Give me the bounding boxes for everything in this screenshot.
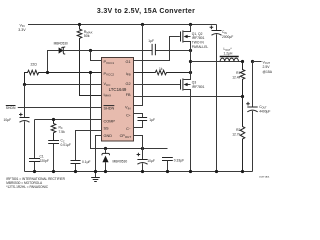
resistor RMAX 50k <box>77 25 101 96</box>
node junction dot VIN-pin drop <box>141 23 144 26</box>
node SHDN input label <box>6 106 102 111</box>
wire FB line <box>134 96 243 98</box>
svg-text:PARALLEL: PARALLEL <box>192 45 209 49</box>
wire SW to VOUT line <box>191 61 243 63</box>
svg-text:1649 TA01: 1649 TA01 <box>259 176 270 179</box>
svg-text:50k: 50k <box>84 34 90 38</box>
svg-text:3.3V to 2.5V, 15A Converter: 3.3V to 2.5V, 15A Converter <box>97 8 195 15</box>
wire COMP line <box>35 119 102 121</box>
node junction dot PVCC2 <box>89 71 92 74</box>
svg-text:1μF: 1μF <box>148 39 154 43</box>
wire VCC line <box>25 84 102 86</box>
svg-text:SS: SS <box>104 127 110 131</box>
node rail dots <box>33 170 244 173</box>
svg-text:0.33μF: 0.33μF <box>174 158 184 162</box>
svg-text:2.5V: 2.5V <box>263 65 271 69</box>
svg-text:12.7k: 12.7k <box>232 133 240 137</box>
svg-text:SHDN: SHDN <box>6 106 16 110</box>
wire IFB line with resistor 1k <box>134 67 193 75</box>
svg-text:GND: GND <box>104 134 113 138</box>
svg-text:COMP: COMP <box>104 120 116 124</box>
node junction dot 22ohm/diode riser <box>46 71 49 74</box>
resistor 22ohm <box>25 63 102 85</box>
capacitor COUT 4400uF polarized <box>246 62 270 172</box>
resistor RC 7.5k <box>51 120 65 141</box>
svg-text:C1: C1 <box>40 154 44 158</box>
svg-text:SHDN: SHDN <box>104 106 115 110</box>
wire SS line <box>76 131 102 161</box>
node junction dot RMAX top <box>78 23 81 26</box>
capacitor 1uF bootstrap <box>148 39 155 55</box>
svg-text:220pF: 220pF <box>40 159 49 163</box>
svg-text:MBR0530: MBR0530 <box>113 159 128 163</box>
svg-text:MBR0530: MBR0530 <box>54 42 68 46</box>
wire PVCC1 stub from boost line <box>91 51 102 61</box>
svg-text:C+: C+ <box>126 113 131 118</box>
svg-text:IFB: IFB <box>126 72 131 77</box>
svg-text:1μF: 1μF <box>149 118 155 122</box>
wire boost line over IC to 1uF <box>91 50 191 52</box>
svg-text:1.2μH: 1.2μH <box>224 51 233 55</box>
transistor Q1 Q2 IRF7801 <box>181 25 209 62</box>
svg-text:LTC1649: LTC1649 <box>109 87 127 92</box>
svg-text:1k: 1k <box>159 67 163 71</box>
svg-text:10μF: 10μF <box>4 118 12 122</box>
ground <box>91 172 100 182</box>
svg-text:7.5k: 7.5k <box>59 130 66 134</box>
svg-text:@15A: @15A <box>263 70 273 74</box>
resistor R2 12.7k <box>232 97 245 172</box>
transistor Q3 IRF7801 <box>181 62 205 172</box>
node junction dot boost to SW <box>189 49 192 52</box>
node junction dot Q1 drain <box>189 23 192 26</box>
capacitor CIN 2000uF polarized <box>210 25 234 172</box>
svg-text:IRF7801: IRF7801 <box>192 85 205 89</box>
svg-text:G1: G1 <box>126 60 131 64</box>
svg-text:*12TS-1R2HL = PANASONIC: *12TS-1R2HL = PANASONIC <box>6 185 49 189</box>
node SW junction dot <box>189 60 192 63</box>
svg-text:FB: FB <box>126 93 131 97</box>
node VOUT label <box>263 60 273 74</box>
svg-text:2000μF: 2000μF <box>222 35 233 39</box>
wire G2 line <box>134 84 181 86</box>
inductor LOUT 1.2uH <box>220 47 239 61</box>
svg-text:3.3V: 3.3V <box>18 28 26 32</box>
capacitor CC 0.01uF <box>48 139 71 172</box>
capacitor 0.33uF <box>162 158 184 172</box>
wire CPOUT vertical from PVCC2 line <box>91 73 168 149</box>
node junction dot boost at x90 <box>89 49 92 52</box>
node VIN label <box>18 23 26 31</box>
diode MBR0530 bottom <box>102 149 127 172</box>
svg-text:IMAX: IMAX <box>104 93 112 98</box>
wire CPOUT line dots <box>104 147 107 150</box>
svg-text:12.4k: 12.4k <box>232 76 240 80</box>
svg-text:10μF: 10μF <box>147 159 155 163</box>
wire VIN rail <box>28 24 217 26</box>
svg-text:0.01μF: 0.01μF <box>61 143 71 147</box>
capacitor 1uF charge pump C+/C- <box>134 114 156 128</box>
diode MBR0530 top <box>48 42 91 73</box>
svg-text:0.1μF: 0.1μF <box>82 160 91 164</box>
footnote manufacturers <box>6 177 65 189</box>
svg-text:R2: R2 <box>236 128 240 132</box>
node FB junction dot <box>241 95 244 98</box>
resistor R1 12.4k <box>232 62 245 97</box>
op-amp U1 LTC1649 IC body <box>102 58 134 142</box>
svg-text:C–: C– <box>126 126 131 131</box>
svg-text:PVCC1: PVCC1 <box>104 60 115 65</box>
capacitor C1 220pF <box>29 120 49 172</box>
svg-text:R1: R1 <box>236 71 240 75</box>
wire VIN pin drop <box>134 25 143 106</box>
svg-text:4400μF: 4400μF <box>259 110 270 114</box>
wire GND pin route <box>96 136 102 172</box>
wire G1 gate route <box>134 37 180 61</box>
svg-text:G2: G2 <box>126 82 131 86</box>
svg-text:PVCC2: PVCC2 <box>104 72 115 77</box>
capacitor 0.1uF soft-start <box>71 160 91 172</box>
pin SHDN <box>104 106 115 111</box>
capacitor 10uF CPOUT polarized <box>134 136 155 172</box>
svg-text:22Ω: 22Ω <box>31 63 38 67</box>
wire ground rail <box>25 171 253 173</box>
capacitor 10uF VCC polarized <box>4 85 30 172</box>
